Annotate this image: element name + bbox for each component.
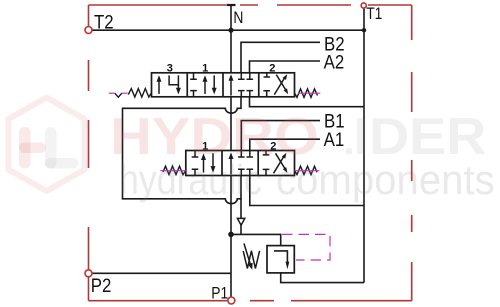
svg-text:T2: T2 [94, 10, 114, 33]
svg-text:hydraulic: hydraulic [119, 157, 262, 203]
svg-text:3: 3 [167, 63, 173, 75]
svg-text:2: 2 [269, 63, 275, 75]
svg-text:1: 1 [202, 63, 208, 75]
svg-text:P1: P1 [211, 284, 228, 302]
svg-text:A1: A1 [324, 127, 345, 150]
svg-text:N: N [233, 9, 243, 27]
svg-text:components: components [276, 156, 495, 203]
svg-text:T1: T1 [366, 5, 382, 23]
svg-text:P2: P2 [91, 274, 112, 297]
svg-text:A2: A2 [324, 50, 345, 73]
